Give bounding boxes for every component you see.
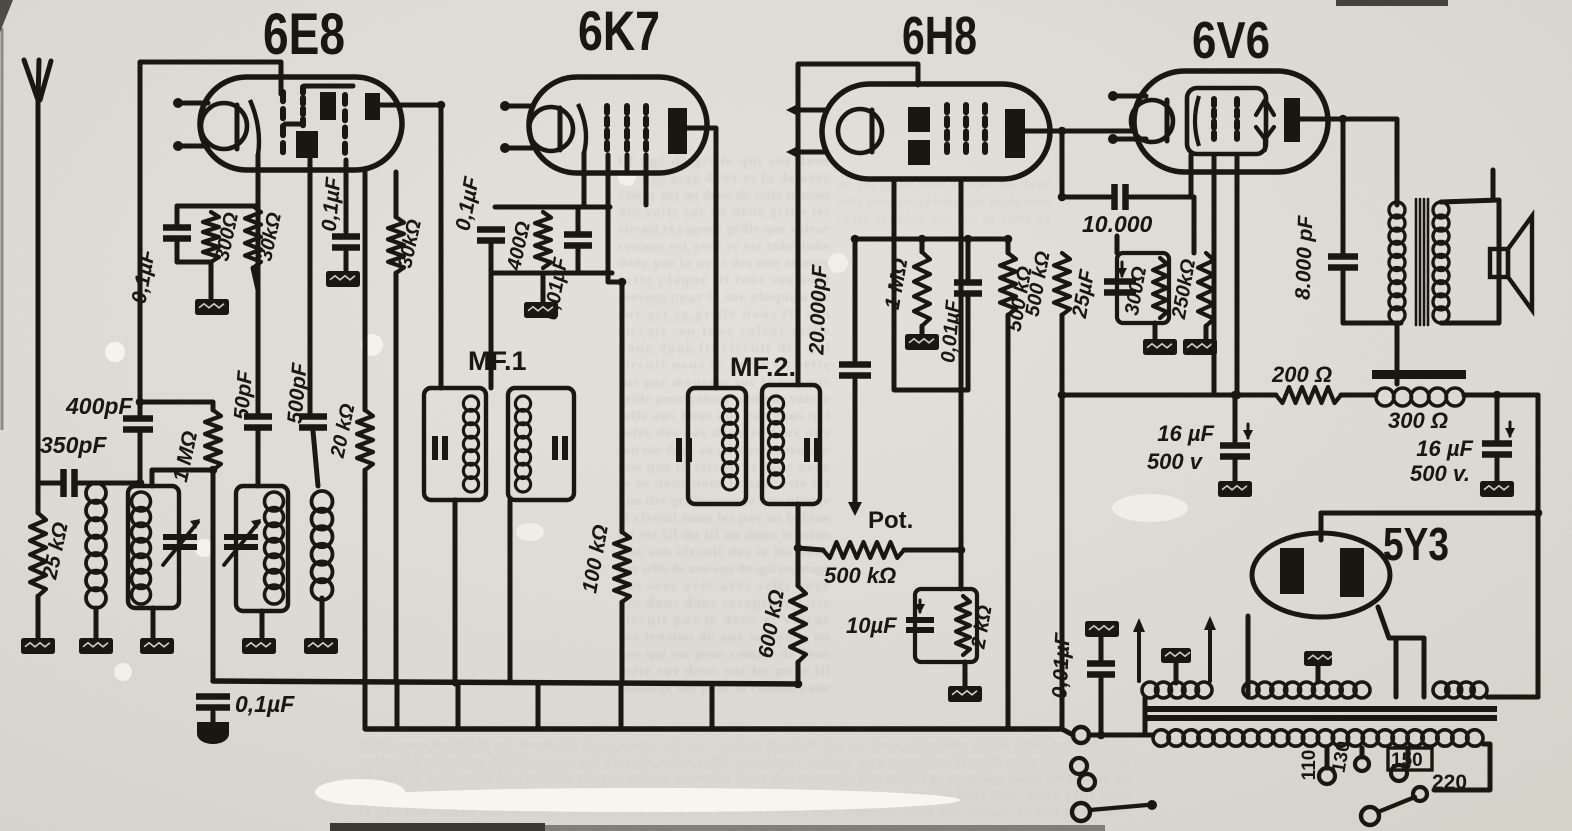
cathode 6E8 bbox=[201, 103, 247, 149]
wire bbox=[508, 500, 513, 681]
ground bbox=[79, 638, 113, 654]
svg-text:MF.2.: MF.2. bbox=[730, 352, 796, 382]
plate 5Y3 a bbox=[1280, 548, 1304, 594]
svg-text:50pF: 50pF bbox=[230, 369, 257, 421]
wire bbox=[1341, 393, 1376, 398]
label 150 bbox=[1391, 750, 1423, 771]
label 8.000pF bbox=[1292, 214, 1318, 300]
wire bbox=[894, 179, 1008, 239]
coil MF.2 secondary bbox=[768, 396, 783, 488]
label 6V6 bbox=[1192, 12, 1270, 70]
wire bbox=[209, 262, 214, 298]
IF transformer MF.2 primary box bbox=[688, 388, 746, 504]
wire bbox=[894, 239, 968, 390]
choke core bbox=[1372, 370, 1466, 379]
grid dashes 6H8 b bbox=[963, 105, 969, 152]
diode plate 6H8 a bbox=[908, 107, 930, 132]
wire bbox=[1343, 321, 1401, 326]
grid dashes 6H8 bbox=[944, 105, 950, 152]
capacitor 20.000pF bbox=[839, 365, 871, 376]
wire bbox=[285, 122, 302, 127]
wire bbox=[1099, 637, 1104, 663]
wire bus A bbox=[213, 681, 798, 684]
svg-text:16 µF: 16 µF bbox=[1416, 436, 1473, 461]
plug symbol bbox=[1071, 758, 1095, 790]
label 0.1µF mid bbox=[318, 175, 346, 232]
wire grid 6K7 bbox=[489, 254, 494, 388]
cathode 6K7 bbox=[529, 107, 573, 151]
grid dashes 6H8 c bbox=[982, 105, 988, 152]
wire bbox=[211, 470, 216, 681]
label 500kΩ pot bbox=[824, 563, 896, 588]
screen rect 6E8 bbox=[296, 131, 318, 158]
label 16µF b bbox=[1416, 436, 1473, 461]
wire bbox=[1319, 513, 1324, 540]
box 10µF 2kΩ bbox=[915, 589, 977, 662]
heater pin bbox=[1108, 91, 1146, 101]
resistor 200Ω bbox=[1276, 387, 1341, 403]
resistor 1MΩ bbox=[205, 410, 221, 470]
screen rect 6E8 top bbox=[320, 92, 336, 120]
svg-text:tout le les: tout le les bbox=[640, 209, 700, 224]
svg-text:6E8: 6E8 bbox=[263, 2, 345, 67]
wire bbox=[796, 504, 801, 548]
wire bbox=[152, 468, 213, 473]
wire bbox=[1316, 666, 1321, 682]
cathode 6H8 bbox=[838, 109, 882, 153]
label 6H8 bbox=[902, 6, 977, 66]
wire bbox=[177, 242, 211, 262]
label 0,01µF 6K7 bbox=[540, 255, 573, 321]
wire step bbox=[710, 684, 715, 729]
wire bbox=[1006, 315, 1011, 729]
wire step bbox=[619, 684, 624, 729]
heater pin bbox=[786, 104, 826, 116]
label 500pF bbox=[283, 361, 311, 425]
wire bbox=[1491, 170, 1496, 200]
resistor 250kΩ bbox=[1198, 253, 1214, 326]
transformer primary bbox=[1153, 730, 1483, 746]
resistor 300Ω 6V6 bbox=[1153, 258, 1167, 318]
wire bbox=[1378, 607, 1424, 697]
heater pin bbox=[786, 146, 826, 158]
grid dashes 6E8 b bbox=[300, 87, 306, 125]
ground blob bbox=[197, 722, 229, 744]
grid 6E8 bbox=[250, 100, 259, 155]
resistor 500kΩ a bbox=[1000, 253, 1016, 315]
wire bbox=[1174, 663, 1179, 683]
label 6E8 bbox=[263, 2, 345, 67]
wire bbox=[1060, 315, 1065, 729]
output transformer primary bbox=[1389, 202, 1405, 323]
capacitor 0,01µF 6K7 bbox=[564, 235, 592, 246]
IF transformer MF.1 primary box bbox=[424, 388, 486, 500]
svg-text:6V6: 6V6 bbox=[1192, 12, 1270, 70]
faint print-through text bbox=[360, 154, 1131, 820]
resistor 25kΩ bbox=[30, 513, 46, 596]
ground bbox=[948, 686, 982, 702]
svg-text:0,01µF: 0,01µF bbox=[1048, 631, 1074, 699]
wire bbox=[1204, 326, 1209, 339]
label 30kΩ b bbox=[394, 217, 426, 270]
heater pin bbox=[173, 98, 208, 108]
label 350pF bbox=[40, 432, 107, 458]
grid dashes 6E8 bbox=[280, 92, 286, 152]
wire cathode 6H8 bbox=[959, 179, 964, 589]
wire bbox=[394, 273, 399, 682]
capacitor MF.2 secondary bbox=[807, 438, 817, 462]
variable capacitor 1 bbox=[163, 519, 200, 565]
svg-text:200 Ω: 200 Ω bbox=[1271, 362, 1332, 387]
wire bbox=[1394, 638, 1399, 697]
svg-text:220: 220 bbox=[1432, 771, 1467, 794]
label 300Ω choke bbox=[1388, 408, 1448, 433]
wire bbox=[1341, 268, 1346, 323]
wire bbox=[495, 205, 610, 210]
svg-text:300 Ω: 300 Ω bbox=[1388, 408, 1448, 433]
coil tuning 2 bbox=[265, 492, 284, 604]
label 500kΩ a bbox=[1004, 264, 1037, 333]
heater pin bbox=[1108, 134, 1146, 144]
grid dashes 6K7 b bbox=[624, 106, 630, 150]
coil antenna primary bbox=[86, 483, 106, 608]
wire bbox=[1130, 197, 1194, 253]
wire bbox=[36, 596, 41, 637]
label 300Ω 6V6 bbox=[1121, 265, 1151, 317]
wire bbox=[1487, 695, 1538, 700]
capacitor 0,1µF bbox=[163, 228, 191, 239]
wire bbox=[175, 206, 180, 224]
wire bbox=[576, 249, 581, 273]
wire bbox=[36, 98, 41, 513]
wire bbox=[1006, 239, 1011, 253]
heater arrow bbox=[1133, 618, 1145, 681]
label 1MΩ bbox=[169, 429, 202, 484]
svg-text:on des du: on des du bbox=[640, 192, 700, 207]
IF transformer MF.1 secondary box bbox=[508, 388, 574, 500]
svg-text:plaque circuit: plaque circuit bbox=[640, 175, 701, 190]
capacitor 25µF bbox=[1104, 262, 1136, 293]
grid dashes 6E8 c bbox=[342, 95, 348, 153]
wire bbox=[1099, 675, 1104, 735]
resistor 1MΩ 6H8 bbox=[914, 252, 930, 326]
ground bbox=[1218, 481, 1252, 497]
wire bbox=[582, 153, 587, 207]
capacitor 400pF bbox=[123, 419, 153, 430]
tube 6H8 bbox=[822, 84, 1050, 179]
capacitor MF.1 primary bbox=[435, 436, 445, 460]
wire bbox=[320, 598, 325, 637]
label 10µF bbox=[846, 613, 897, 638]
capacitor 350pF bbox=[64, 469, 75, 497]
resistor 100kΩ bbox=[614, 532, 630, 602]
wire bbox=[1536, 395, 1541, 697]
capacitor 0.01µF 6H8 bbox=[954, 283, 982, 294]
wire bbox=[576, 207, 581, 232]
heater pin bbox=[500, 143, 532, 153]
wire bbox=[620, 602, 625, 684]
wire bbox=[1246, 616, 1251, 697]
label 20.000pF bbox=[805, 263, 831, 356]
wire anode 6E8 bbox=[380, 105, 441, 388]
label 500kΩ b bbox=[1022, 249, 1055, 318]
wire bbox=[1153, 323, 1158, 339]
wire bbox=[256, 431, 261, 486]
label 5Y3 bbox=[1383, 518, 1449, 570]
svg-text:8.000 pF: 8.000 pF bbox=[1292, 214, 1318, 300]
label MF.2 bbox=[730, 352, 796, 382]
speaker bbox=[1490, 216, 1532, 310]
wire bbox=[253, 268, 258, 290]
wire bbox=[260, 611, 265, 637]
cathode 6V6 bbox=[1131, 100, 1173, 142]
label MF.1 bbox=[468, 346, 527, 376]
svg-text:10.000: 10.000 bbox=[1082, 211, 1153, 237]
wire bbox=[177, 204, 258, 209]
box 300Ω bbox=[1117, 253, 1169, 323]
ground bbox=[21, 638, 55, 654]
wire bbox=[151, 608, 156, 637]
wire rectifier rail bbox=[1321, 511, 1538, 516]
svg-text:volts nous montage est montage: volts nous montage est montage aux comme… bbox=[360, 737, 1130, 752]
coil MF.1 primary bbox=[463, 396, 478, 492]
label 1MΩ 6H8 bbox=[881, 257, 913, 312]
wire bbox=[966, 239, 971, 282]
switch terminal b bbox=[1361, 807, 1379, 825]
svg-text:20.000pF: 20.000pF bbox=[805, 263, 831, 356]
tap 110 bbox=[1319, 748, 1335, 784]
label 0,1µF bottom bbox=[235, 691, 295, 717]
capacitor MF.2 primary bbox=[679, 438, 689, 462]
wire grid 6V6 bbox=[1189, 155, 1194, 197]
resistor potentiometer 500kΩ bbox=[823, 542, 904, 558]
terminal 220 bbox=[1413, 787, 1427, 801]
label 500v a bbox=[1147, 449, 1204, 474]
wire bbox=[1115, 236, 1120, 253]
resistor 2kΩ bbox=[956, 596, 970, 655]
ground bbox=[1480, 481, 1514, 497]
grid 6K7 bbox=[578, 104, 586, 153]
wire bbox=[313, 431, 318, 486]
ground bbox=[195, 299, 229, 315]
antenna bbox=[24, 60, 51, 100]
svg-text:sont sont recepteur qui recept: sont sont recepteur qui recepteur bbox=[836, 193, 1050, 208]
choke 300Ω bbox=[1376, 388, 1464, 406]
ground bbox=[524, 302, 558, 318]
svg-text:500 v: 500 v bbox=[1147, 449, 1204, 474]
label 6K7 bbox=[578, 0, 660, 62]
wire bbox=[608, 155, 622, 282]
ground heater bbox=[1161, 648, 1191, 663]
anode 6E8 bbox=[365, 93, 380, 120]
resistor 500kΩ b bbox=[1054, 253, 1070, 315]
wire bbox=[1143, 698, 1148, 735]
anode 6V6 bbox=[1284, 98, 1300, 142]
wire bbox=[1233, 457, 1238, 481]
svg-text:350pF: 350pF bbox=[40, 432, 107, 458]
label 0,1µF bbox=[128, 247, 160, 305]
wire bbox=[1089, 733, 1153, 738]
ground bbox=[1183, 339, 1217, 355]
wire bbox=[1062, 729, 1073, 735]
svg-text:150: 150 bbox=[1391, 750, 1423, 771]
svg-text:500 v.: 500 v. bbox=[1410, 461, 1470, 486]
tube 6V6 bbox=[1134, 71, 1328, 172]
wire screen 6V6 bbox=[1212, 157, 1217, 395]
wire anode 6H8 bbox=[1025, 129, 1134, 134]
wire B+ rail bbox=[1062, 393, 1276, 398]
output transformer secondary bbox=[1433, 202, 1449, 323]
IF transformer MF.2 secondary box bbox=[762, 385, 820, 504]
coil oscillator bbox=[312, 491, 333, 600]
svg-text:Pot.: Pot. bbox=[868, 507, 913, 534]
switch arm b bbox=[1378, 797, 1415, 812]
anode 6K7 bbox=[668, 108, 687, 154]
label 300Ω bbox=[211, 210, 243, 263]
svg-text:0,1µF: 0,1µF bbox=[318, 175, 346, 232]
wire bbox=[625, 155, 630, 173]
label 2kΩ bbox=[967, 603, 996, 651]
tube 6E8 bbox=[200, 77, 402, 170]
capacitor 0,1µF bottom bbox=[196, 697, 230, 708]
wire anode 6K7 bbox=[687, 128, 716, 388]
variable capacitor 2 bbox=[224, 519, 261, 565]
capacitor 0,01µF mains bbox=[1087, 664, 1115, 675]
label 200Ω bbox=[1271, 362, 1332, 387]
transformer winding heater bbox=[1142, 682, 1212, 698]
wire bbox=[140, 402, 213, 410]
wire bbox=[1060, 131, 1065, 197]
svg-text:que grille: que grille bbox=[640, 277, 700, 292]
wire bbox=[541, 273, 546, 301]
wire bbox=[966, 294, 971, 390]
label 400Ω bbox=[503, 219, 535, 273]
grid dashes 6V6 b bbox=[1234, 99, 1240, 139]
svg-text:5Y3: 5Y3 bbox=[1383, 518, 1449, 570]
wire bbox=[38, 481, 60, 486]
output transformer core bbox=[1416, 199, 1428, 325]
beam arrows 6V6 bbox=[1256, 100, 1274, 150]
wire bbox=[493, 271, 612, 276]
coil MF.1 secondary bbox=[515, 396, 530, 492]
wire bbox=[140, 62, 281, 415]
wire grid 6H8 bbox=[798, 64, 918, 385]
capacitor 8.000pF bbox=[1328, 257, 1358, 268]
wire bbox=[853, 380, 858, 502]
tube 5Y3 bbox=[1252, 533, 1390, 617]
wire bbox=[363, 172, 368, 410]
wire grid to 50pF bbox=[256, 155, 261, 413]
svg-text:MF.1: MF.1 bbox=[468, 346, 527, 376]
label 220 bbox=[1432, 771, 1467, 794]
heater arrow b bbox=[1204, 616, 1216, 681]
ground bbox=[140, 638, 174, 654]
wire bbox=[453, 500, 458, 684]
wire bbox=[1495, 395, 1500, 444]
label 0,01µF mains bbox=[1048, 631, 1074, 699]
svg-text:16 µF: 16 µF bbox=[1157, 421, 1214, 446]
wire bbox=[394, 172, 399, 217]
tube 6K7 bbox=[529, 77, 707, 173]
svg-text:10µF: 10µF bbox=[846, 613, 897, 638]
svg-text:6H8: 6H8 bbox=[902, 6, 977, 66]
wire bbox=[78, 481, 140, 486]
wire step bbox=[536, 684, 541, 729]
pot arrow bbox=[848, 502, 862, 516]
wire bbox=[1434, 744, 1490, 790]
capacitor 10.000 bbox=[1115, 184, 1126, 210]
wire 20000pF bbox=[853, 239, 858, 360]
svg-text:400pF: 400pF bbox=[65, 393, 133, 419]
svg-text:6K7: 6K7 bbox=[578, 0, 660, 62]
capacitor MF.1 secondary bbox=[555, 436, 565, 460]
svg-text:est cette: est cette bbox=[640, 260, 700, 275]
resistor 30kΩ bbox=[245, 206, 261, 268]
ground floating bbox=[1085, 621, 1119, 637]
wire bbox=[363, 470, 368, 729]
svg-text:valeur fil: valeur fil bbox=[640, 328, 700, 343]
grid dashes 6V6 bbox=[1211, 99, 1217, 139]
wire bbox=[920, 326, 925, 334]
heater pin bbox=[500, 101, 532, 111]
tuning box 2 bbox=[236, 486, 288, 611]
svg-text:cette du est: cette du est bbox=[640, 226, 701, 241]
wire bbox=[1233, 395, 1238, 446]
tap 150 bbox=[1388, 748, 1432, 781]
ground HV center bbox=[1304, 651, 1333, 666]
label 500v b bbox=[1410, 461, 1470, 486]
wire bbox=[489, 244, 494, 254]
anode 6H8 bbox=[1005, 109, 1025, 158]
svg-text:volts tension est est et tube: volts tension est est et tube et bbox=[836, 210, 1051, 225]
wire 100k bbox=[620, 282, 625, 532]
terminal bbox=[1073, 727, 1089, 743]
switch arm bbox=[1090, 800, 1157, 810]
label 50pF bbox=[230, 369, 257, 421]
tuning box 1 bbox=[128, 486, 179, 608]
label 250kΩ bbox=[1168, 257, 1200, 321]
label Pot bbox=[868, 507, 913, 534]
diode plate 6H8 b bbox=[908, 140, 930, 165]
grid dashes 6K7 bbox=[604, 106, 610, 150]
capacitor 0.1µF mid bbox=[332, 237, 360, 248]
svg-text:500 kΩ: 500 kΩ bbox=[824, 563, 896, 588]
svg-text:valeur comme: valeur comme bbox=[640, 311, 700, 326]
svg-text:dans pas une: dans pas une bbox=[640, 243, 700, 258]
wire bbox=[150, 470, 155, 486]
wire bbox=[1341, 119, 1346, 256]
svg-text:plaque donc: plaque donc bbox=[640, 294, 700, 309]
heater pin bbox=[173, 141, 208, 151]
svg-text:cette est montage des les avec: cette est montage des les avec qui circu… bbox=[360, 754, 1131, 769]
label 400pF bbox=[65, 393, 133, 419]
label 25kΩ bbox=[38, 520, 73, 582]
capacitor 50pF bbox=[244, 417, 272, 428]
plate 5Y3 b bbox=[1340, 548, 1364, 597]
tap 130 bbox=[1355, 748, 1369, 771]
wire bbox=[304, 84, 353, 89]
resistor 20kΩ bbox=[357, 410, 373, 470]
svg-text:0,1µF: 0,1µF bbox=[235, 691, 295, 717]
svg-text:plaque et cette selfs que tens: plaque et cette selfs que tension plaque… bbox=[360, 771, 1130, 786]
wire bbox=[344, 252, 349, 270]
resistor 30kΩ b bbox=[388, 217, 404, 273]
label 0,1µF 6K7 bbox=[452, 174, 484, 232]
wire bbox=[920, 239, 925, 252]
wire bbox=[963, 662, 968, 686]
wire bbox=[798, 548, 823, 550]
wire cathode 6V6 bbox=[1235, 157, 1240, 395]
